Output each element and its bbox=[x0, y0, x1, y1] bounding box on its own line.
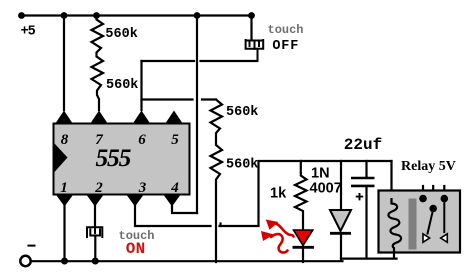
svg-text:ON: ON bbox=[126, 240, 146, 258]
svg-text:Relay 5V: Relay 5V bbox=[401, 159, 456, 174]
svg-text:4: 4 bbox=[170, 180, 179, 196]
svg-text:560k: 560k bbox=[226, 157, 258, 172]
svg-text:560k: 560k bbox=[105, 27, 137, 42]
svg-text:2: 2 bbox=[94, 180, 103, 196]
svg-text:7: 7 bbox=[95, 132, 103, 148]
svg-text:560k: 560k bbox=[106, 78, 138, 93]
svg-text:1N: 1N bbox=[311, 166, 330, 182]
svg-text:+5: +5 bbox=[21, 25, 36, 40]
svg-text:OFF: OFF bbox=[272, 39, 299, 54]
svg-text:1k: 1k bbox=[270, 186, 287, 202]
svg-text:1: 1 bbox=[60, 180, 68, 196]
svg-text:8: 8 bbox=[61, 132, 69, 148]
svg-text:4007: 4007 bbox=[310, 181, 342, 197]
svg-text:5: 5 bbox=[171, 132, 179, 148]
svg-text:560k: 560k bbox=[226, 105, 258, 120]
svg-text:touch: touch bbox=[268, 23, 304, 37]
svg-text:3: 3 bbox=[138, 180, 147, 196]
svg-text:22uf: 22uf bbox=[344, 136, 382, 154]
svg-text:6: 6 bbox=[138, 132, 146, 148]
